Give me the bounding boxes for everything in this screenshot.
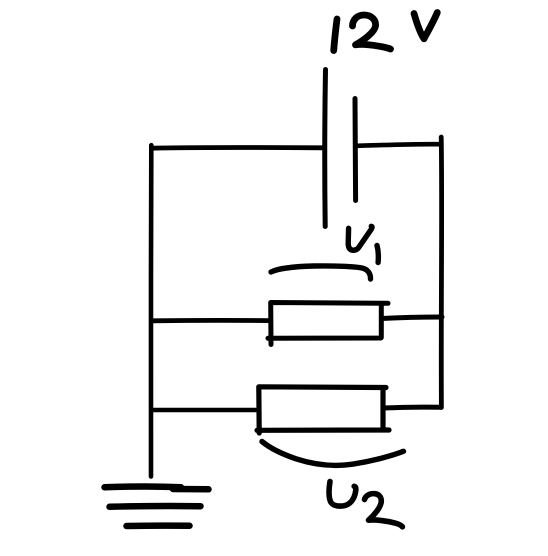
brace for U1 (above R1) (271, 266, 371, 279)
brace for U2 (below R2) (262, 442, 404, 466)
wire R1 left lead (152, 318, 270, 323)
wire top-right (battery - to right bus) (358, 144, 441, 146)
wire right bus (vertical) (439, 137, 444, 408)
wire left bus (vertical) (149, 145, 154, 476)
wire top-left (battery + to left bus) (152, 145, 323, 150)
label U2 (voltage across R2) (329, 482, 402, 527)
battery (12 V source) short plate (353, 99, 359, 201)
ground symbol (105, 487, 209, 526)
label U1 (voltage across R1) (348, 226, 378, 262)
wire R2 right lead (384, 405, 442, 411)
wire R1 right lead (382, 317, 443, 319)
battery (12 V source) long plate (322, 70, 328, 227)
resistor R1 (top resistor) (268, 303, 388, 345)
wire R2 left lead (152, 408, 258, 413)
resistor R2 (bottom resistor) (257, 387, 389, 433)
label 12 V (battery value) (334, 13, 438, 51)
